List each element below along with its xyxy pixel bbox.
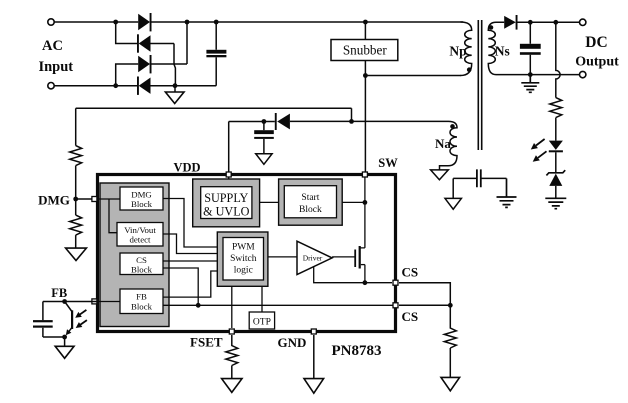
wire: output + rail [518,21,580,23]
block: OTP [249,312,274,329]
ground: output earth [521,75,539,93]
pin: DMG [92,197,97,202]
node: sense line junction [196,303,201,308]
snubber box [331,40,398,61]
wire: PWM to FSET pin [231,286,233,328]
AC input terminal (top) [48,19,54,25]
block: input stage gray column [100,183,169,327]
label DC Output [575,34,619,69]
pin: CS upper [393,280,398,285]
svg-text:Block: Block [131,199,153,209]
wire: output - rail [496,74,580,76]
transistor: optocoupler phototransistor [65,302,74,336]
wire: cap to emitter node [43,336,65,338]
resistor: DMG divider lower [70,199,82,248]
wire: PWM to driver [268,256,297,258]
svg-text:Np: Np [449,44,466,59]
diode: VDD rectifier [275,113,290,130]
wire: GND pin down [313,335,315,379]
transformer auxiliary winding Na [440,121,458,169]
wire: FB/CS sense line to CS pin [163,304,396,306]
block: Vin/Vout detect [117,223,163,247]
transformer primary Np [461,22,472,76]
wire: CS pin to sense resistor [399,283,450,306]
svg-text:SW: SW [378,156,398,170]
svg-text:FB: FB [51,286,67,300]
node: output - junction [528,72,533,77]
block: Start Block [279,179,343,225]
svg-text:DC: DC [585,34,607,51]
ground: current sense [441,377,460,390]
wire: D2 anode to ground node (with hop) [151,44,176,86]
svg-text:PN8783: PN8783 [332,343,382,359]
capacitor: VDD cap [254,122,274,154]
ground: Na winding [431,170,449,180]
wire: Start Block to SW net [342,201,365,203]
diode D2 (bridge, ground to AC line) [137,34,151,52]
node: snubber tap on +rail [363,20,368,25]
LED light arrows [531,139,547,162]
DC output terminal (minus) [580,71,586,77]
wire: DMG block to PWM [163,199,217,248]
wire: AC line drop to D2 [116,22,138,44]
wire: SUPPLY to Start Block [260,201,279,203]
block: CS Block [120,253,163,275]
block: PWM Switch logic [217,232,268,286]
diode D1 (bridge, AC line to +rail) [138,13,151,31]
svg-text:DMG: DMG [131,189,152,199]
ground: Y-cap primary side [445,198,461,209]
node: feedback chain tap [553,20,558,25]
svg-text:detect: detect [130,235,152,245]
capacitor: Y-cap primary to secondary [453,169,506,187]
node: VDD cap junction [262,119,267,124]
svg-text:CS: CS [401,309,418,324]
wire: VDD diode to VDD pin [229,122,275,175]
DC output terminal (plus) [580,19,586,25]
ground: DMG divider [66,248,87,260]
node: aux line junction [349,119,354,124]
svg-text:FB: FB [136,292,147,302]
pin: CS lower [393,303,398,308]
svg-text:Vin/Vout: Vin/Vout [124,225,156,235]
block: DMG Block [120,187,163,210]
capacitor: FB compensation [33,302,53,338]
zener diode: voltage reference [546,170,565,198]
wire: Vin/Vout detect to PWM [163,234,217,254]
wire: AC line top rail [54,21,138,23]
svg-text:Switch: Switch [230,254,257,264]
wire: rectified + rail to transformer [151,21,463,23]
node: SW / primary bottom junction [363,73,368,78]
svg-text:VDD: VDD [173,161,200,175]
svg-text:Start: Start [301,193,319,203]
wire: snubber to SW node [364,61,366,76]
ground: VDD cap [256,154,272,165]
wire: D3 cathode riser to +rail [150,22,187,64]
wire: feedback chain drop (hop over - rail) [556,22,560,97]
label AC Input [38,38,73,75]
wire: primary bottom [365,75,461,77]
wire: aux winding line [290,120,449,122]
svg-text:& UVLO: & UVLO [203,205,250,219]
node: bulk cap on +rail [214,20,219,25]
node: D3 cathode on +rail [185,20,190,25]
diode D3 (bridge, AC neutral to +rail) [138,55,151,73]
wire: aux sense line to DMG divider [76,108,352,121]
LED: optocoupler emitter [549,141,563,173]
block: FB Block [120,289,163,314]
wire: DMG pin branch to Vin/Vout detect [109,199,117,233]
wire: +rail to snubber [364,22,366,40]
resistor: current sense [444,305,456,377]
capacitor: output cap [520,22,541,74]
node: Np phase dot [467,67,472,72]
wire: VDD pin into SUPPLY [228,175,230,180]
wire: CS lower pin to sense resistor [399,304,450,306]
ground: Y-cap secondary earth [497,178,517,207]
node: Ns phase dot [489,25,494,30]
svg-text:Snubber: Snubber [343,43,388,58]
resistor: DMG divider upper [70,108,82,199]
svg-text:Input: Input [38,59,73,75]
wire: DMG node to pin [76,198,99,200]
node: FB collector junction [62,299,67,304]
svg-text:AC: AC [42,38,63,54]
node: DMG pin junction [73,197,78,202]
op IC PN8783 outline U1 [98,175,396,332]
svg-text:OTP: OTP [253,317,271,327]
svg-text:GND: GND [278,335,307,350]
node: AC neutral junction [113,83,118,88]
diode: output rectifier [504,15,517,30]
node: AC line junction [113,20,118,25]
ground: bridge (primary) [165,86,184,104]
svg-text:Na: Na [435,136,451,151]
block: SUPPLY & UVLO [193,179,260,227]
transformer secondary Ns [488,22,504,74]
wire: FB pin to FB Block [99,301,120,303]
svg-text:Ns: Ns [495,44,510,59]
svg-text:PWM: PWM [232,242,255,252]
svg-text:Output: Output [575,55,619,70]
svg-text:FSET: FSET [190,335,223,350]
pin: VDD [226,172,231,177]
ground: GND pin [304,379,324,394]
wire: CS block to PWM [163,260,217,262]
wire: FB block to PWM [163,271,217,297]
wire: emitter to ground [64,337,66,346]
pin: GND [311,329,316,334]
wire: Y-cap left leg [452,178,454,198]
pin: FSET [229,329,234,334]
ground: FB network [55,346,74,358]
wire: AC neutral riser to D3 [116,64,139,86]
node: sense resistor junction [448,303,453,308]
node: emitter junction [62,335,67,340]
ground: FSET [222,379,242,393]
capacitor: bulk cap [206,22,226,86]
wire: DMG pin to DMG Block [99,198,120,200]
op-amp: gate driver [297,241,332,274]
svg-text:SUPPLY: SUPPLY [204,191,248,205]
ground: zener earth [545,198,566,208]
wire: driver return to source [314,266,365,282]
node: Na phase dot [450,124,455,129]
node: output cap junction [528,20,533,25]
svg-text:Block: Block [131,301,153,311]
svg-text:DMG: DMG [38,192,70,207]
wire: driver to gate [332,256,355,258]
diode D4 (bridge, ground to AC neutral) [137,77,151,95]
svg-text:CS: CS [401,265,418,280]
wire: FB pin to compensation network [43,301,99,303]
optocoupler light arrows [75,310,87,328]
svg-text:Driver: Driver [303,254,323,263]
transformer core [478,20,481,150]
wire: bottom rail to bulk cap [151,85,217,87]
resistor: FSET timing [226,335,238,379]
svg-text:Block: Block [131,264,153,274]
svg-text:logic: logic [234,265,253,275]
pin: FB [92,299,97,304]
AC input terminal (bottom) [48,83,54,89]
svg-text:Block: Block [299,205,322,215]
wire: AC neutral bottom rail [54,85,138,87]
wire: CS block to sense line [163,268,198,305]
node: primary ground junction [173,83,178,88]
wire: SW pin to MOSFET drain [360,176,365,248]
wire: SW node down to SW pin [364,76,366,175]
wire: MOSFET source to CS pin [365,265,392,283]
node: source junction [363,280,368,285]
transistor: power MOSFET Q1 [354,246,365,269]
wire: PWM to OTP [261,286,263,312]
node: start block tap on SW net [363,200,368,205]
pin: SW [362,172,367,177]
resistor: feedback bias [550,98,562,141]
